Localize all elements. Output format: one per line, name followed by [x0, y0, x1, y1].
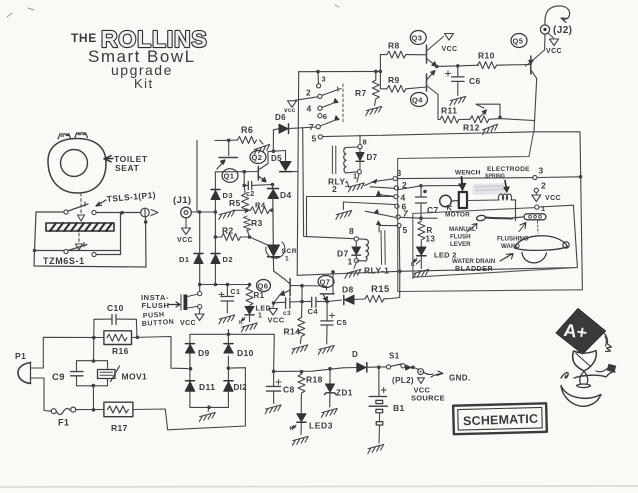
ground under R14 — [291, 345, 309, 354]
svg-text:Q4: Q4 — [412, 96, 423, 105]
capacitor C2 — [243, 172, 245, 186]
svg-text:C10: C10 — [107, 303, 124, 313]
svg-text:Kit: Kit — [134, 76, 154, 91]
connector P1 circle — [141, 208, 150, 217]
contact pin 6 — [395, 204, 399, 208]
switch TSLS-1 — [36, 211, 64, 213]
wire P1 top pin — [31, 337, 104, 368]
battery B1 — [378, 367, 380, 396]
trophy cup — [573, 351, 597, 372]
svg-text:VCC: VCC — [545, 195, 561, 202]
contact pin 4 — [318, 106, 322, 110]
ground under LED1 — [240, 323, 258, 332]
svg-text:D9: D9 — [198, 348, 210, 358]
ground under LED3 — [291, 436, 309, 445]
svg-text:Q3: Q3 — [412, 34, 423, 43]
contact pin 2 — [318, 94, 322, 98]
svg-text:SEAT: SEAT — [115, 163, 140, 173]
transistor Q3 — [410, 31, 426, 45]
svg-text:VCC: VCC — [442, 46, 458, 53]
resistor R17 boxed — [104, 402, 133, 417]
svg-text:2: 2 — [332, 184, 337, 194]
svg-text:TZM6S-1: TZM6S-1 — [43, 256, 85, 266]
wire P1 bottom pin — [31, 378, 52, 411]
resistor R18 — [298, 374, 305, 393]
resistor R11 — [440, 116, 459, 123]
plug doodle — [596, 369, 607, 372]
svg-text:R5: R5 — [229, 198, 241, 208]
contact pin 7 — [396, 215, 400, 219]
LED1 — [248, 306, 250, 308]
gnd arrow and label — [424, 371, 443, 377]
wire Q1 emitter to Q2 base — [215, 171, 258, 173]
svg-text:R8: R8 — [388, 41, 400, 51]
SCR1 — [268, 245, 280, 256]
svg-text:B1: B1 — [393, 403, 405, 413]
svg-text:MOV1: MOV1 — [122, 372, 148, 382]
RLY-2 pin 8 — [358, 145, 362, 149]
water swoosh — [561, 372, 615, 378]
svg-text:ZD1: ZD1 — [336, 389, 353, 398]
resistor R2 — [222, 234, 241, 241]
diode D1 — [194, 255, 203, 264]
inner tank box — [413, 214, 578, 278]
scan speck top mid — [335, 5, 339, 7]
relay actuator dashed line — [342, 84, 344, 122]
svg-text:C7: C7 — [427, 205, 439, 215]
capacitor C1 — [226, 285, 228, 297]
svg-text:R17: R17 — [111, 423, 128, 433]
svg-text:LED 2: LED 2 — [434, 251, 457, 260]
svg-text:R7: R7 — [355, 88, 367, 98]
wire button row to R1 — [200, 284, 250, 286]
switch TZMES-1 — [64, 249, 68, 253]
bridge top rail — [190, 334, 274, 371]
svg-text:8: 8 — [363, 138, 368, 147]
boat hull — [561, 386, 601, 407]
resistor R8 — [387, 51, 406, 58]
svg-text:8: 8 — [349, 226, 354, 236]
svg-text:1: 1 — [258, 313, 263, 320]
resistor R15 — [365, 295, 384, 302]
svg-text:c3: c3 — [283, 310, 291, 317]
resistor R10 — [478, 62, 497, 69]
svg-text:C8: C8 — [283, 385, 295, 395]
Q6 designator — [257, 280, 271, 292]
contact pin 5 — [397, 223, 401, 227]
diamond tassel — [604, 333, 612, 352]
relay RLY-2 coil — [332, 146, 335, 174]
vcc above Q3 — [445, 34, 454, 41]
node left — [33, 249, 37, 253]
dc bus — [272, 370, 276, 374]
wire pin7 to C7 bottom — [400, 216, 437, 219]
svg-text:SOURCE: SOURCE — [411, 394, 445, 403]
transistor Q5 — [511, 34, 527, 48]
wire Q5 emitter bus right — [534, 132, 582, 290]
vertical node to cap row — [301, 286, 303, 302]
relay frame lines — [381, 231, 385, 265]
relay RLY-1 coil — [357, 239, 366, 261]
RLY-1 enclosure top-left — [307, 197, 400, 237]
svg-text:D4: D4 — [280, 190, 292, 200]
wire loop bottom — [34, 217, 146, 267]
svg-text:FLUSH: FLUSH — [450, 234, 471, 241]
ground arm RLY-1 contacts — [346, 181, 350, 187]
svg-text:5: 5 — [312, 134, 317, 144]
ground under RLY-2 — [357, 174, 359, 182]
transistor Q6 — [289, 279, 291, 296]
resistor R3 — [244, 216, 251, 231]
diode D11 — [186, 380, 195, 382]
svg-text:R9: R9 — [388, 75, 400, 85]
svg-text:RLY-1: RLY-1 — [364, 266, 389, 276]
wire to SCR anode — [250, 237, 271, 246]
svg-text:D1: D1 — [179, 255, 189, 264]
resistor R4 — [251, 207, 270, 214]
svg-text:R10: R10 — [478, 51, 495, 61]
dashed drop from wand — [537, 221, 540, 233]
vertical to surge box — [93, 338, 95, 361]
svg-text:R15: R15 — [371, 284, 390, 295]
svg-text:Q1: Q1 — [224, 172, 235, 181]
contact pin 4 — [394, 195, 398, 199]
node under P1 circle — [144, 220, 148, 224]
ground under ZD1 — [320, 408, 338, 417]
transistor Q2 — [250, 151, 266, 164]
arrow to toilet seat — [104, 156, 113, 162]
flushing wand — [524, 214, 546, 220]
svg-text:3: 3 — [322, 75, 327, 84]
rail D3 column — [214, 172, 216, 285]
ground under C6 — [449, 96, 467, 105]
wire R17 to bridge AC2 — [133, 368, 246, 430]
svg-text:GND.: GND. — [449, 374, 471, 383]
svg-text:C4: C4 — [308, 307, 319, 316]
arrow to TSLS switch — [96, 200, 106, 206]
capacitor C7 — [396, 186, 421, 190]
push button contacts — [198, 292, 202, 296]
LED3 — [297, 414, 306, 422]
svg-text:SPRING: SPRING — [485, 174, 505, 180]
svg-text:Q7: Q7 — [320, 278, 331, 287]
terminal 3 — [533, 175, 537, 179]
svg-text:D2: D2 — [223, 255, 233, 264]
svg-text:LED3: LED3 — [309, 421, 333, 431]
arrow to spring — [505, 181, 506, 189]
left rail from top bus — [297, 72, 299, 276]
ground stub left of R5 — [233, 209, 246, 211]
svg-text:D10: D10 — [237, 348, 254, 358]
diode D12 — [224, 380, 233, 382]
fuse F1 — [51, 409, 56, 414]
svg-text:K: K — [239, 320, 243, 326]
svg-text:2: 2 — [306, 88, 311, 98]
terminal 1 — [535, 205, 539, 209]
svg-text:A+: A+ — [562, 320, 588, 343]
dashed link seat to switch — [80, 193, 82, 215]
scan speck top left — [7, 8, 34, 17]
toilet seat outer ring — [48, 139, 106, 194]
contact pin 7 — [316, 125, 320, 129]
RLY-1 pin 1 — [354, 258, 358, 262]
resistor R16 boxed — [104, 331, 132, 345]
resistor R7 — [375, 71, 377, 80]
svg-text:(PL2): (PL2) — [392, 376, 414, 385]
connector J2 jack — [540, 25, 549, 34]
bridge mid nodes — [189, 367, 193, 371]
node junction — [120, 211, 124, 215]
bladder bowl — [522, 253, 547, 263]
emitter node Q3/Q4 — [435, 65, 439, 69]
electrode spring coil — [498, 194, 511, 200]
rail J1 down to push button — [199, 212, 201, 292]
top bus wire — [299, 70, 381, 72]
wire pin6 to common ground — [343, 202, 394, 210]
svg-text:1: 1 — [285, 256, 289, 263]
svg-text:(J1): (J1) — [173, 195, 192, 206]
ground under C8 — [264, 405, 282, 414]
node D5/D6/Q2 — [268, 150, 273, 152]
diode D4 — [272, 185, 274, 189]
motor pulley — [440, 195, 452, 207]
diode D7 of RLY-2 — [356, 153, 364, 161]
capacitor C5 — [326, 302, 328, 321]
diode D3 — [211, 191, 220, 200]
resistor R5 — [242, 194, 249, 213]
ground under R7 — [365, 106, 383, 115]
svg-text:D7: D7 — [367, 153, 378, 162]
svg-text:BLADDER: BLADDER — [455, 264, 493, 273]
ground under B1 — [367, 444, 385, 453]
svg-text:S1: S1 — [389, 352, 400, 361]
wire pin3 to terminal 3 — [397, 178, 532, 179]
svg-text:VCC: VCC — [180, 320, 196, 327]
resistor R6 — [215, 139, 229, 141]
highlighter smudge — [472, 183, 507, 195]
A+ award diamond — [556, 309, 606, 355]
vcc stub under J1 — [185, 218, 187, 228]
wire wench to spring — [467, 199, 499, 202]
capacitor C9 — [71, 371, 83, 373]
wire J1 to rails — [192, 211, 216, 213]
toilet seat hinge tabs — [58, 133, 88, 139]
svg-text:1: 1 — [353, 172, 358, 181]
svg-text:MOTOR: MOTOR — [445, 212, 470, 219]
diode D5 — [273, 151, 285, 161]
svg-text:FLUSH: FLUSH — [142, 301, 170, 310]
svg-text:R1: R1 — [254, 291, 265, 300]
svg-text:ELECTRODE: ELECTRODE — [487, 166, 530, 173]
wire D6 anode down to Q2 node — [272, 130, 274, 151]
diode D10 — [224, 343, 233, 345]
varistor MOV1 — [98, 370, 116, 379]
svg-text:K: K — [411, 262, 415, 268]
zener ZD1 — [329, 369, 331, 384]
wire C7 top to wench — [421, 186, 463, 192]
wire D4 to SCR — [272, 199, 275, 245]
svg-text:R11: R11 — [441, 106, 457, 116]
svg-text:D: D — [352, 350, 358, 359]
ground under C1 — [218, 315, 236, 324]
vcc under Q6 — [272, 303, 275, 308]
long wire pin5 to right section — [323, 132, 534, 137]
outer enclosure box — [398, 159, 583, 292]
svg-text:R16: R16 — [112, 346, 129, 356]
plug P1 — [18, 363, 31, 384]
dashed link bar to switch 2 — [78, 233, 80, 244]
hatched pressure bar — [46, 223, 114, 231]
svg-text:c2: c2 — [246, 191, 255, 198]
capacitor C3 — [274, 301, 286, 304]
svg-text:5: 5 — [403, 225, 408, 235]
svg-text:3: 3 — [539, 166, 544, 176]
diode D9 — [186, 343, 195, 345]
wire SCR to Q6 collector — [273, 257, 285, 280]
wire D5 cathode to rail — [292, 171, 298, 173]
diode D8 — [343, 295, 345, 304]
surge frame — [77, 361, 108, 386]
rail D6 down to RLY-1 pin8 — [303, 128, 354, 239]
svg-text:R6: R6 — [241, 125, 253, 135]
LED2 — [417, 247, 427, 255]
svg-text:F1: F1 — [58, 418, 69, 428]
wench solenoid — [459, 192, 467, 208]
svg-text:K: K — [290, 426, 294, 432]
resistor R13 — [418, 221, 425, 240]
base wire Q6 to Q7 — [290, 286, 326, 291]
svg-text:R2: R2 — [222, 226, 234, 236]
svg-text:THE: THE — [71, 31, 97, 45]
vcc feed to pin 2 — [295, 97, 318, 101]
push button plunger — [184, 295, 188, 311]
resistor R14 — [298, 318, 305, 337]
wire to D8 — [327, 300, 341, 302]
contact pin 6 — [318, 114, 322, 118]
contact pin 3 top — [317, 72, 320, 84]
resistor R1 — [246, 287, 253, 306]
long wire bottom to tank — [297, 268, 577, 276]
contact pin 5 — [318, 135, 322, 139]
diode D2 — [211, 255, 220, 264]
bridge bottom node and ground — [207, 406, 211, 410]
transistor Q7 — [320, 293, 334, 295]
svg-text:SCHEMATIC: SCHEMATIC — [463, 412, 539, 429]
wire switch to P1 plug — [96, 212, 140, 214]
svg-text:SCR: SCR — [282, 248, 298, 255]
capacitor C4 — [302, 300, 312, 302]
SCHEMATIC stamp box — [453, 403, 547, 434]
vertical to fuse wire — [92, 386, 94, 410]
svg-text:MANUAL: MANUAL — [449, 226, 476, 233]
vcc under J2 — [549, 34, 554, 39]
svg-text:1: 1 — [348, 257, 353, 267]
svg-text:Q5: Q5 — [513, 37, 524, 46]
wire R6 column down to J1 row — [196, 141, 198, 213]
ground after R6 — [260, 140, 264, 144]
bridge left leg — [190, 334, 229, 407]
capacitor C8 — [273, 371, 275, 386]
J2 loop flourish — [545, 6, 570, 25]
Q7 designator — [318, 276, 334, 288]
svg-text:R18: R18 — [306, 375, 323, 385]
scan line bottom — [0, 486, 638, 487]
svg-text:D8: D8 — [342, 285, 354, 295]
R8 R9 feed rail — [379, 55, 381, 89]
svg-text:P1: P1 — [15, 351, 26, 361]
relay RLY-1 pin 8 — [354, 237, 358, 241]
svg-text:Q6: Q6 — [258, 282, 269, 291]
svg-text:D5: D5 — [271, 154, 282, 163]
ground right of R12 — [481, 124, 499, 135]
connector J1 jack — [181, 207, 192, 218]
Q1 designator circle — [222, 169, 238, 183]
toilet seat inner ring — [61, 150, 88, 177]
node D4 top — [271, 183, 275, 187]
ground under LED2 — [412, 269, 430, 278]
svg-text:R3: R3 — [251, 218, 263, 228]
svg-text:C5: C5 — [337, 318, 347, 327]
svg-text:D6: D6 — [275, 113, 286, 122]
capacitor C10 — [94, 319, 112, 338]
svg-text:13: 13 — [426, 235, 436, 244]
button lower to vcc — [199, 309, 201, 314]
wire fuse to R17 — [76, 409, 104, 411]
contact arm pin3 with arrow — [365, 179, 394, 186]
svg-text:VCC: VCC — [177, 237, 193, 244]
transistor Q1 — [228, 140, 230, 155]
RLY-2 pin 1 — [357, 170, 361, 174]
svg-text:4: 4 — [307, 104, 312, 114]
manual flush lever — [476, 215, 486, 221]
svg-text:LEVER: LEVER — [450, 241, 471, 248]
transistor Q4 — [411, 93, 428, 107]
contact pin 2 — [394, 186, 398, 190]
svg-text:6: 6 — [323, 112, 328, 121]
water drain bladder dome — [515, 236, 568, 251]
svg-text:R12: R12 — [463, 123, 480, 133]
svg-text:R4: R4 — [255, 201, 266, 210]
svg-text:C9: C9 — [52, 372, 65, 383]
svg-text:Q2: Q2 — [252, 153, 263, 162]
svg-text:(J2): (J2) — [553, 25, 572, 36]
resistor R9 — [387, 85, 406, 92]
svg-text:R14: R14 — [284, 327, 301, 337]
contact pin 3 — [393, 177, 397, 181]
svg-text:C6: C6 — [469, 76, 481, 86]
svg-text:Dl2: Dl2 — [234, 383, 248, 392]
terminal 2 with vcc — [534, 188, 538, 192]
diode D7 of RLY-1 — [355, 241, 357, 246]
ground under RLY-1 pin1 — [354, 263, 356, 269]
wire R16 to bridge — [132, 337, 189, 369]
ground under C5 — [317, 345, 335, 354]
svg-text:WENCH: WENCH — [455, 170, 481, 177]
svg-text:VCC: VCC — [546, 48, 562, 55]
sensor bar box — [35, 212, 121, 251]
pin5 rail down — [398, 228, 401, 272]
svg-text:1: 1 — [541, 204, 546, 213]
potentiometer R12 — [470, 116, 489, 123]
svg-text:2: 2 — [541, 181, 546, 191]
svg-text:C1: C1 — [231, 289, 241, 296]
svg-text:D11: D11 — [199, 382, 215, 392]
capacitor C6 — [457, 66, 459, 77]
